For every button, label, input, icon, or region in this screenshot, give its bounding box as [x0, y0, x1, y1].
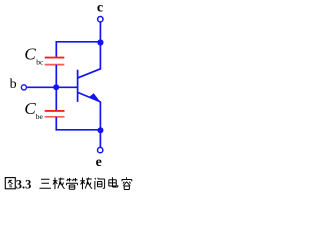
caption char 图	[5, 178, 15, 189]
wire emitter vertical to node e	[99, 102, 101, 131]
node collector junction	[97, 39, 103, 45]
svg-text:be: be	[36, 112, 44, 121]
terminal e	[97, 147, 102, 152]
capacitor Cbe top plate	[45, 110, 65, 112]
wire bottom horizontal to node e	[55, 129, 100, 131]
svg-text:3.3: 3.3	[16, 178, 32, 192]
capacitor Cbc top plate	[45, 57, 65, 59]
wire b terminal to base	[27, 86, 78, 88]
svg-text:C: C	[24, 99, 36, 118]
svg-text:C: C	[24, 44, 36, 63]
svg-text:bc: bc	[36, 58, 44, 67]
node base junction	[53, 84, 59, 90]
wire c terminal to collector node	[99, 22, 101, 42]
caption char 管	[66, 178, 77, 189]
wire left branch down to Cbc top plate	[55, 41, 57, 57]
wire collector vertical from node c	[99, 42, 101, 69]
caption char 间	[95, 178, 105, 190]
wire Cbc bottom plate to node b	[55, 65, 57, 88]
svg-text:b: b	[10, 77, 17, 92]
wire Cbe bottom plate down	[55, 117, 57, 131]
node emitter junction	[97, 127, 103, 133]
caption char 容	[122, 177, 132, 189]
wire node e to terminal e	[99, 130, 101, 147]
caption char 极 (1)	[53, 177, 65, 189]
svg-text:c: c	[97, 1, 103, 16]
wire node b down to Cbe top plate	[55, 87, 57, 110]
caption char 三	[39, 179, 51, 188]
wire top horizontal (node c to Cbc branch)	[56, 41, 101, 43]
svg-text:e: e	[96, 155, 102, 170]
transistor Q base bar	[77, 70, 79, 102]
terminal c	[98, 17, 103, 22]
capacitor Cbe bottom plate	[45, 116, 65, 118]
caption char 电	[109, 177, 118, 187]
caption 图3.3 三极管极间电容	[5, 177, 132, 191]
transistor collector line	[78, 69, 101, 78]
transistor emitter line	[78, 93, 101, 102]
caption char 极 (2)	[80, 178, 92, 190]
emitter arrowhead	[89, 93, 101, 102]
capacitor Cbc bottom plate	[45, 64, 65, 66]
terminal b	[21, 85, 26, 90]
